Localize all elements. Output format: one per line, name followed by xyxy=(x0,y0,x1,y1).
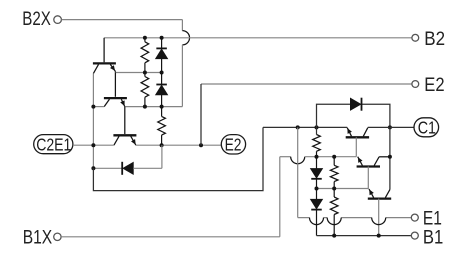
wire row2R left segment from B1X xyxy=(280,156,291,158)
wire B1 rail xyxy=(317,235,411,237)
wire E1 terminal segments xyxy=(298,217,411,219)
terminal oval C2E1 xyxy=(34,134,73,154)
wire B1X vertical riser xyxy=(279,157,281,237)
node dot - bus/Q2 collector junction xyxy=(91,105,95,109)
node dot - R1 top on B2 rail xyxy=(143,36,147,40)
terminal label E2 xyxy=(424,75,444,96)
wire E1 connector vertical xyxy=(297,127,299,217)
wire Q5 base lead xyxy=(367,167,369,189)
transistor Q5 xyxy=(357,157,380,167)
svg-text:B1: B1 xyxy=(423,227,443,248)
terminal circle E2 xyxy=(412,81,419,88)
svg-text:E2: E2 xyxy=(424,75,444,96)
svg-text:E1: E1 xyxy=(423,208,442,229)
diode D5 xyxy=(311,157,323,189)
diode D3 freewheel left block xyxy=(122,162,133,175)
wire C2E1 to E1 connector xyxy=(93,127,263,190)
wire collector bus vertical xyxy=(92,73,94,168)
wire C1 rail xyxy=(368,126,414,128)
wire freewheel right row xyxy=(317,104,390,127)
wire freewheel row right segment xyxy=(133,145,162,168)
svg-text:B2: B2 xyxy=(424,29,445,50)
transistor Q4 xyxy=(346,128,369,138)
wire Q3 base lead xyxy=(124,107,126,135)
wire row2 - Q2 emitter to B2X drop xyxy=(125,106,183,108)
resistor R4 xyxy=(313,127,321,156)
terminal circle E1 xyxy=(411,214,418,221)
wire B2X vertical drop lower to Q3 base node xyxy=(181,45,183,107)
node dot - R2 bottom row2 xyxy=(143,105,147,109)
node dot - R4 bottom / D5 top row2R xyxy=(315,155,319,159)
resistor R2 xyxy=(141,73,149,107)
wire E2 row - Q3 emitter to E2 oval xyxy=(136,144,221,146)
transistor Q2 xyxy=(104,98,127,107)
node dot - E2 drop junction xyxy=(199,143,203,147)
wire row2R right segment xyxy=(305,156,357,158)
diode D6 xyxy=(311,189,323,236)
wire E2 terminal horizontal xyxy=(201,83,412,85)
node dot - D1/D2 junction row1 xyxy=(160,71,164,75)
svg-text:C1: C1 xyxy=(418,117,436,137)
wire freewheel row left segment xyxy=(93,167,122,169)
wire hop - B2X drop over B2 rail xyxy=(182,31,189,45)
terminal label B2 xyxy=(424,29,445,50)
transistor Q6 xyxy=(368,189,391,199)
node dot - Q5 collector on C1 bus xyxy=(388,155,392,159)
wire B2X terminal to drop corner xyxy=(62,19,183,21)
svg-text:C2E1: C2E1 xyxy=(36,134,71,154)
node dot - D1 top on B2 rail xyxy=(160,36,164,40)
resistor R6 xyxy=(330,189,338,236)
terminal circle B1X xyxy=(54,233,61,240)
diode D2 xyxy=(156,73,168,107)
node dot - D2/R3 junction row2 xyxy=(160,105,164,109)
terminal circle B1 xyxy=(411,232,418,239)
wire Q5 collector jog to C1 bus xyxy=(379,156,390,158)
svg-text:B1X: B1X xyxy=(23,227,53,248)
terminal label B1X xyxy=(23,227,53,248)
wire row1R xyxy=(317,188,369,190)
node dot - freewheel anode / R4 top xyxy=(315,125,319,129)
wire row1 - Q1 emitter to D1 xyxy=(115,72,161,74)
node dot - bus/freewheel junction xyxy=(91,166,95,170)
diode D4 freewheel right block xyxy=(350,98,361,111)
wire E1 rail xyxy=(263,126,347,128)
wire hop - E1 over Q6 base lead xyxy=(372,218,386,225)
wire B1X horizontal xyxy=(61,236,280,238)
terminal oval C1 xyxy=(414,117,439,137)
node dot - R3 bottom / freewheel anode xyxy=(160,143,164,147)
svg-text:E2: E2 xyxy=(225,135,242,155)
transistor Q3 xyxy=(113,135,136,145)
node dot - E1 connector on rail xyxy=(296,125,300,129)
wire Q2 collector jog to bus xyxy=(93,106,104,108)
node dot - bus on C2E1 row xyxy=(91,143,95,147)
wire hop - E1 over R6 xyxy=(327,218,341,225)
resistor R3 xyxy=(158,107,166,146)
terminal oval E2 xyxy=(221,135,245,155)
wire Q1 emitter stub xyxy=(114,71,116,72)
node dot - C1 bus / freewheel cathode xyxy=(388,125,392,129)
node dot - R5/R6 junction row1R xyxy=(332,187,336,191)
terminal label B2X xyxy=(22,9,51,30)
wire hop - row2R over E1 connector xyxy=(291,157,305,164)
wire C1 bus vertical xyxy=(389,127,391,189)
node dot - R5 top row2R xyxy=(332,155,336,159)
node dot - D5/D6 junction row1R xyxy=(315,187,319,191)
wire Q1 base lead xyxy=(103,38,105,63)
wire Q6 base lead xyxy=(378,199,380,236)
node dot - Q6 base on B1 rail xyxy=(377,234,381,238)
terminal circle B2 xyxy=(412,34,419,41)
resistor R1 xyxy=(141,38,149,73)
wire C2E1 row to Q3 collector xyxy=(73,144,114,146)
wire B2 rail xyxy=(104,37,412,39)
terminal circle B2X xyxy=(54,16,62,24)
terminal label B1 xyxy=(423,227,443,248)
diode D1 xyxy=(156,38,168,73)
wire hop - E1 over D6 xyxy=(310,218,324,225)
svg-text:B2X: B2X xyxy=(22,9,51,30)
node dot - R6 bottom on B1 rail xyxy=(332,234,336,238)
resistor R5 xyxy=(330,157,338,189)
wire B2X vertical drop upper xyxy=(181,20,183,31)
wire Q2 base lead xyxy=(114,73,116,97)
wire Q4 base lead xyxy=(355,137,357,156)
wire E2 vertical drop xyxy=(200,84,202,145)
terminal label E1 xyxy=(423,208,442,229)
node dot - R1/R2 junction row1 xyxy=(143,71,147,75)
transistor Q1 xyxy=(93,63,116,73)
